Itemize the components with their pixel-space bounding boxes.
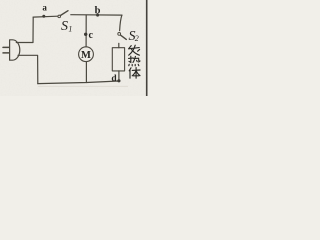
svg-text:d: d	[111, 74, 117, 84]
char 发	[129, 45, 140, 55]
switch S1 blade (open)	[60, 11, 68, 16]
switch S2 pivot	[118, 33, 121, 36]
char 热	[129, 56, 140, 66]
show-through faint line	[38, 85, 128, 87]
wire: top wire right segment (S1 to top-right corner)	[71, 14, 122, 16]
svg-text:2: 2	[135, 34, 139, 43]
svg-text:c: c	[88, 30, 93, 41]
node b dot	[96, 14, 99, 17]
wire: motor branch vertical	[85, 15, 87, 47]
wire: bottom wire	[38, 81, 119, 84]
table border (right edge rule)	[146, 0, 148, 96]
label 发热体 (heater), hand-drawn strokes	[129, 45, 140, 78]
svg-text:b: b	[95, 6, 101, 17]
node a dot	[42, 15, 45, 18]
svg-text:S: S	[61, 19, 68, 34]
plug P (two-prong)	[3, 40, 20, 60]
wire: right vertical down to S2	[120, 15, 122, 31]
switch S2 blade (open)	[121, 35, 127, 39]
wire: top wire left segment (to switch S1)	[33, 15, 57, 18]
node d dot	[117, 79, 120, 82]
wire: S2 to heater top	[118, 43, 120, 47]
wire: plug top lead to top-left corner	[16, 17, 33, 42]
paper background	[0, 0, 148, 96]
char 体	[129, 68, 140, 79]
svg-text:1: 1	[68, 24, 72, 33]
wire: heater bottom lead to node d	[118, 71, 120, 81]
wire: lower-left vertical + plug bottom lead	[18, 55, 38, 83]
node c dot	[84, 33, 87, 36]
svg-text:M: M	[81, 50, 91, 61]
motor U1 circle	[79, 47, 94, 62]
heater (resistor box)	[112, 48, 124, 71]
wire: motor bottom lead	[85, 62, 87, 83]
svg-text:a: a	[42, 2, 47, 12]
switch S1 pivot	[58, 15, 61, 18]
